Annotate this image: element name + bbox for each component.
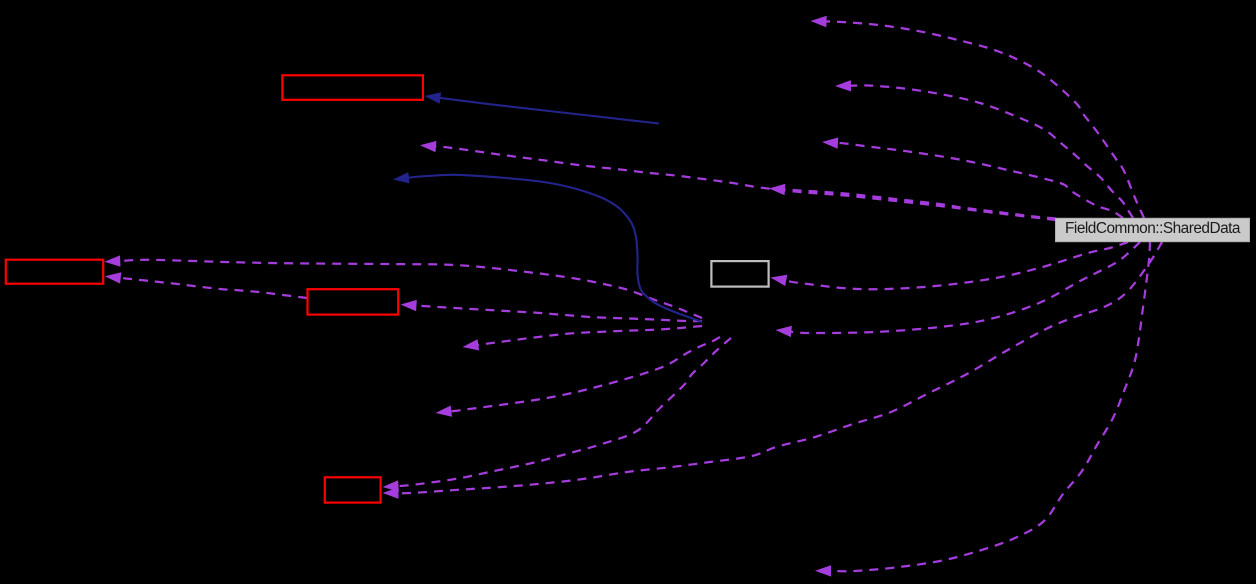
svg-text:FieldCommon::SharedData: FieldCommon::SharedData — [1065, 220, 1241, 237]
